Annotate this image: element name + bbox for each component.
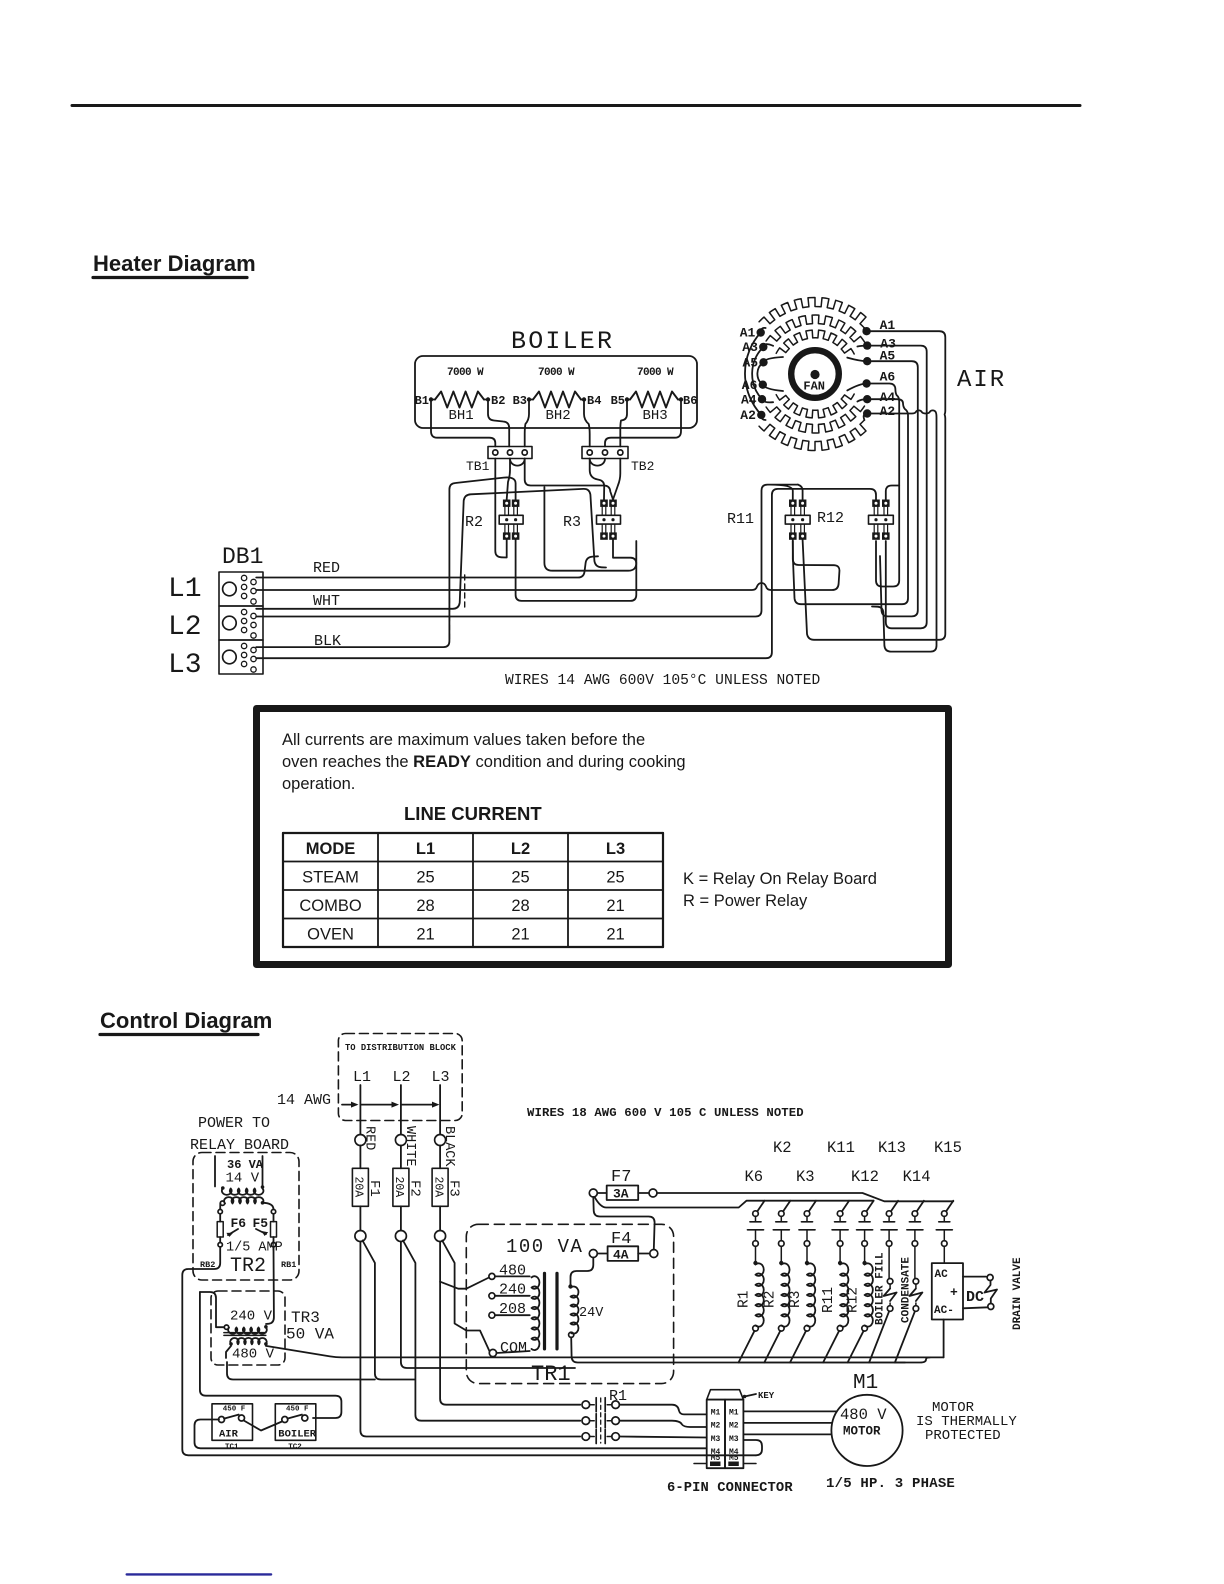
svg-text:A6: A6 bbox=[742, 378, 758, 393]
svg-text:R12: R12 bbox=[817, 510, 844, 527]
wire A4 bbox=[793, 399, 908, 604]
thermostat AIR TC1 bbox=[212, 1404, 253, 1441]
svg-text:MOTOR: MOTOR bbox=[843, 1425, 881, 1439]
air heater element ring 2 (middle, A3/A4) bbox=[766, 315, 864, 342]
svg-text:DC: DC bbox=[966, 1289, 984, 1306]
svg-text:AC-: AC- bbox=[934, 1305, 954, 1317]
fan hub bbox=[791, 350, 839, 398]
footer rule bbox=[127, 1573, 271, 1575]
terminal A4 (left) bbox=[758, 395, 766, 403]
svg-text:FAN: FAN bbox=[803, 380, 825, 394]
svg-text:K15: K15 bbox=[934, 1139, 962, 1157]
svg-text:Control Diagram: Control Diagram bbox=[100, 1008, 272, 1033]
heater element BH1 bbox=[435, 392, 484, 408]
wire 24V bottom to rail bbox=[571, 1337, 905, 1362]
power relay R11 bbox=[789, 500, 797, 507]
svg-text:OVEN: OVEN bbox=[307, 926, 354, 944]
svg-text:R1: R1 bbox=[737, 1291, 753, 1308]
terminal A6 (left) bbox=[759, 381, 767, 389]
svg-text:R11: R11 bbox=[727, 511, 754, 528]
page header rule bbox=[72, 104, 1080, 107]
svg-text:25: 25 bbox=[511, 869, 529, 887]
contact K11 bbox=[837, 1211, 843, 1217]
thermostat BOILER TC2 bbox=[275, 1404, 316, 1441]
terminal A6 (right) bbox=[862, 379, 870, 387]
wire F7 right feed A bbox=[657, 1193, 953, 1201]
contact K6 bbox=[753, 1211, 759, 1217]
wire F7 left feed B bbox=[595, 1197, 874, 1208]
wire AIR to BOILER link bbox=[244, 1421, 282, 1431]
svg-text:AIR: AIR bbox=[219, 1428, 239, 1440]
svg-text:A2: A2 bbox=[740, 408, 756, 423]
svg-text:M3: M3 bbox=[711, 1435, 721, 1444]
svg-text:BH3: BH3 bbox=[643, 408, 668, 424]
svg-text:TB2: TB2 bbox=[631, 459, 654, 474]
tap 240 bbox=[489, 1293, 495, 1299]
svg-text:450 F: 450 F bbox=[286, 1406, 309, 1414]
svg-text:F3: F3 bbox=[446, 1180, 462, 1197]
wire hidden riser (dashed) near WHT bbox=[464, 575, 466, 607]
svg-text:WHT: WHT bbox=[313, 593, 340, 610]
wire AIR left loop bbox=[195, 1420, 707, 1449]
wire connector to motor 2 bbox=[743, 1422, 832, 1424]
svg-text:K12: K12 bbox=[851, 1168, 879, 1186]
svg-text:A2: A2 bbox=[880, 404, 896, 419]
relay coil R12 bbox=[864, 1246, 866, 1261]
svg-text:28: 28 bbox=[511, 897, 529, 915]
svg-text:B1: B1 bbox=[415, 394, 429, 408]
terminal A3 (left) bbox=[759, 343, 767, 351]
wire BH2-B4 bbox=[581, 399, 584, 401]
wire RED phase column bbox=[359, 1085, 361, 1135]
contact K15 bbox=[942, 1211, 948, 1217]
wire B3-BH2 bbox=[529, 399, 533, 401]
svg-text:B6: B6 bbox=[683, 394, 697, 408]
svg-text:WIRES 18 AWG 600 V 105 C UNLES: WIRES 18 AWG 600 V 105 C UNLESS NOTED bbox=[527, 1106, 804, 1120]
wire hidden riser (dashed) near R2 bbox=[448, 598, 450, 641]
wire RB1 rail down bbox=[266, 1247, 274, 1324]
svg-text:L1: L1 bbox=[416, 840, 435, 858]
svg-text:K2: K2 bbox=[773, 1139, 792, 1157]
wire rail segment solenoids bbox=[849, 1362, 895, 1364]
terminal A2 (left) bbox=[757, 411, 765, 419]
wire WHITE phase column bbox=[400, 1085, 402, 1135]
dashed box TR2 bbox=[193, 1153, 299, 1281]
wire thermostat feed bbox=[200, 1292, 342, 1418]
svg-text:R2: R2 bbox=[762, 1291, 778, 1308]
terminal A5 (left) bbox=[759, 358, 767, 366]
svg-text:25: 25 bbox=[606, 869, 624, 887]
wire TB2 c1 to R3 upper bbox=[590, 459, 605, 500]
svg-text:Heater Diagram: Heater Diagram bbox=[93, 251, 256, 276]
contact K13 bbox=[886, 1211, 892, 1217]
svg-text:M1: M1 bbox=[729, 1409, 739, 1418]
wire solenoid BOILER FILL to rail bbox=[869, 1311, 889, 1362]
svg-text:14 AWG: 14 AWG bbox=[277, 1092, 331, 1109]
svg-text:POWER TO: POWER TO bbox=[198, 1115, 270, 1132]
wire A3 bbox=[867, 346, 927, 629]
svg-text:All currents are maximum value: All currents are maximum values taken be… bbox=[282, 731, 645, 749]
svg-text:R12: R12 bbox=[846, 1287, 862, 1313]
contact R1 pole 2 bbox=[582, 1417, 590, 1425]
terminal A1 (right) bbox=[862, 327, 870, 335]
svg-text:R3: R3 bbox=[563, 514, 581, 531]
solenoid CONDENSATE bbox=[914, 1246, 916, 1278]
wire coil R3 to rail bbox=[790, 1331, 806, 1363]
wire BH3-B6 bbox=[678, 399, 681, 401]
wire A5 bbox=[867, 361, 918, 616]
wire B1-BH1 bbox=[431, 399, 435, 401]
rectifier AC-DC bbox=[932, 1263, 963, 1319]
wire loop under R3 bbox=[544, 487, 636, 571]
solenoid DRAIN VALVE bbox=[963, 1276, 986, 1278]
wire long rail y1379 bbox=[227, 1362, 375, 1380]
svg-text:K13: K13 bbox=[878, 1139, 906, 1157]
svg-text:21: 21 bbox=[511, 926, 529, 944]
wire rail segment bbox=[765, 1362, 790, 1364]
transformer TR3 core bbox=[224, 1332, 266, 1334]
svg-text:B5: B5 bbox=[611, 394, 625, 408]
wire solenoid CONDENSATE to rail bbox=[895, 1311, 915, 1362]
relay coil R1 bbox=[755, 1246, 757, 1261]
wire B5 to TB2 bbox=[620, 402, 627, 447]
svg-text:3A: 3A bbox=[613, 1187, 629, 1202]
svg-text:L2: L2 bbox=[168, 612, 202, 643]
svg-text:F2: F2 bbox=[406, 1180, 422, 1197]
wire TB1 to R2 lower contact bbox=[495, 459, 506, 558]
wire L1 lower feed to R11 bbox=[256, 540, 839, 590]
svg-text:1/5 HP. 3 PHASE: 1/5 HP. 3 PHASE bbox=[826, 1476, 955, 1492]
svg-text:24V: 24V bbox=[579, 1306, 604, 1321]
wire TR3 480V out diagonal bbox=[266, 1346, 944, 1358]
svg-text:7000 W: 7000 W bbox=[538, 367, 575, 379]
terminal B3 bbox=[527, 397, 531, 401]
terminal A4 (right) bbox=[863, 395, 871, 403]
heater diagram group bbox=[72, 106, 1080, 690]
6-pin connector bbox=[707, 1390, 744, 1400]
svg-text:L2: L2 bbox=[511, 840, 530, 858]
dashed actuator link R1 bbox=[600, 1398, 602, 1443]
wire rail segment bbox=[740, 1362, 765, 1364]
dashed box TR3 bbox=[211, 1291, 285, 1365]
svg-text:TR3: TR3 bbox=[291, 1309, 320, 1327]
svg-text:BOILER: BOILER bbox=[278, 1428, 317, 1440]
svg-text:MODE: MODE bbox=[306, 840, 356, 858]
wire TB2 c3 to R3 upper-right bbox=[613, 459, 620, 500]
wire F3 split bbox=[440, 1242, 466, 1289]
wire rail to connector bbox=[743, 1440, 762, 1455]
wire coil R12 to rail bbox=[848, 1331, 864, 1363]
svg-text:240 V: 240 V bbox=[230, 1309, 273, 1325]
wire R1 pole3 to connector bbox=[619, 1437, 706, 1438]
wire U-link under TB2 bbox=[590, 459, 605, 466]
wire TR2 primary right to F5 bbox=[263, 1203, 274, 1210]
svg-text:4A: 4A bbox=[613, 1247, 629, 1262]
svg-text:DB1: DB1 bbox=[222, 544, 263, 570]
wire connector to motor 1 bbox=[743, 1410, 836, 1412]
relay coil R3 bbox=[806, 1246, 808, 1261]
wire R11 right-top stub bbox=[798, 485, 803, 500]
svg-text:R2: R2 bbox=[465, 514, 483, 531]
solenoid BOILER FILL bbox=[888, 1246, 890, 1278]
svg-text:50 VA: 50 VA bbox=[286, 1326, 334, 1344]
power relay R12 bbox=[872, 500, 880, 507]
fuse F6 bbox=[217, 1222, 223, 1237]
terminal A5 (right) bbox=[863, 357, 871, 365]
svg-text:14 V: 14 V bbox=[226, 1171, 260, 1187]
terminal B4 bbox=[582, 397, 586, 401]
fuse F3 20A bbox=[432, 1168, 448, 1206]
wire F2 split bbox=[401, 1242, 575, 1369]
wire TR3 480V left bbox=[226, 1346, 231, 1358]
svg-text:A6: A6 bbox=[880, 370, 896, 385]
terminal A2 (right) bbox=[863, 409, 871, 417]
svg-text:21: 21 bbox=[606, 926, 624, 944]
svg-text:F1: F1 bbox=[366, 1180, 382, 1197]
wire RB2 rail down-left bbox=[182, 1247, 756, 1455]
svg-text:STEAM: STEAM bbox=[302, 869, 359, 887]
wire F7 to F4 right bbox=[593, 1197, 654, 1250]
air heater element ring 3 (inner, A5/A6) bbox=[776, 330, 854, 354]
wire COM feed bbox=[466, 1331, 489, 1352]
contact K3 bbox=[804, 1211, 810, 1217]
svg-text:7000 W: 7000 W bbox=[637, 367, 674, 379]
svg-text:F5: F5 bbox=[253, 1216, 269, 1231]
air heater element ring 1 (outer, A1/A2) bbox=[759, 297, 866, 328]
wire coil R1 to rail bbox=[739, 1331, 755, 1363]
svg-text:20A: 20A bbox=[431, 1177, 444, 1198]
wire B2 to TB1 bbox=[488, 402, 509, 447]
svg-text:20A: 20A bbox=[352, 1177, 365, 1198]
terminal B2 bbox=[486, 397, 490, 401]
terminal B6 bbox=[679, 397, 683, 401]
tap 480 bbox=[489, 1273, 495, 1279]
wire B4 to TB2 bbox=[584, 402, 590, 447]
fuse F2 20A bbox=[393, 1168, 409, 1206]
svg-text:RED: RED bbox=[313, 560, 340, 577]
wire BLACK phase column bbox=[439, 1085, 441, 1135]
svg-text:K14: K14 bbox=[903, 1168, 931, 1186]
terminal block TB1 bbox=[488, 447, 532, 459]
wire L2 lower feed to R11 bbox=[256, 485, 798, 617]
power relay R3 bbox=[600, 500, 608, 507]
note box bbox=[257, 709, 949, 965]
svg-text:K11: K11 bbox=[827, 1139, 855, 1157]
wire B1 to TB1 bbox=[431, 402, 495, 447]
wire connector to motor 3 bbox=[743, 1433, 831, 1435]
wire 24V top to F4 bbox=[571, 1258, 594, 1287]
svg-text:480 V: 480 V bbox=[232, 1347, 275, 1363]
wire B5-BH3 bbox=[627, 399, 630, 401]
svg-text:CONDENSATE: CONDENSATE bbox=[900, 1257, 912, 1323]
wire L3 lower feed to R12 bbox=[256, 489, 876, 658]
fuse F1 20A bbox=[352, 1168, 368, 1206]
transformer TR3 secondary 480V bbox=[230, 1338, 267, 1344]
svg-text:BLACK: BLACK bbox=[441, 1126, 456, 1167]
svg-text:100 VA: 100 VA bbox=[506, 1236, 583, 1258]
wire rail segment bbox=[824, 1362, 848, 1364]
transformer TR1 secondary winding 24V bbox=[571, 1287, 579, 1334]
tap 208 bbox=[489, 1312, 495, 1318]
transformer TR1 core bbox=[543, 1273, 546, 1349]
svg-text:L3: L3 bbox=[606, 840, 625, 858]
wire F1 split bbox=[360, 1242, 580, 1437]
svg-text:450 F: 450 F bbox=[223, 1406, 246, 1414]
tap COM bbox=[489, 1349, 496, 1356]
svg-text:20A: 20A bbox=[392, 1177, 405, 1198]
wire B6 to TB2 bbox=[605, 402, 681, 447]
svg-text:R = Power Relay: R = Power Relay bbox=[683, 892, 808, 910]
svg-text:B4: B4 bbox=[587, 394, 601, 408]
svg-text:K = Relay On Relay Board: K = Relay On Relay Board bbox=[683, 870, 877, 888]
svg-text:K3: K3 bbox=[796, 1168, 815, 1186]
svg-text:K6: K6 bbox=[745, 1168, 764, 1186]
svg-text:L3: L3 bbox=[432, 1069, 450, 1086]
svg-text:A4: A4 bbox=[741, 392, 757, 407]
svg-text:L1: L1 bbox=[168, 574, 202, 605]
svg-text:RED: RED bbox=[361, 1126, 376, 1150]
wire A2 bbox=[867, 410, 936, 651]
wire TR3 240V left down bbox=[200, 1292, 224, 1327]
contact K2 bbox=[779, 1211, 785, 1217]
wire left arc ring1 A1-A2 bbox=[745, 328, 766, 420]
svg-text:KEY: KEY bbox=[758, 1391, 775, 1401]
svg-text:R11: R11 bbox=[821, 1287, 837, 1313]
wire R1 pole1 to connector bbox=[619, 1405, 706, 1415]
terminal B5 bbox=[625, 397, 629, 401]
svg-text:21: 21 bbox=[606, 897, 624, 915]
svg-text:M2: M2 bbox=[711, 1422, 721, 1431]
svg-text:F7: F7 bbox=[611, 1168, 631, 1187]
contact K14 bbox=[912, 1211, 918, 1217]
svg-text:PROTECTED: PROTECTED bbox=[925, 1428, 1001, 1444]
wire left arc ring3 A5-A6 bbox=[757, 357, 783, 391]
svg-text:LINE CURRENT: LINE CURRENT bbox=[404, 803, 542, 824]
svg-text:M2: M2 bbox=[729, 1422, 739, 1431]
wire R2 lower-right loop to R3 bbox=[516, 540, 637, 601]
heater element BH2 bbox=[533, 392, 581, 408]
svg-text:L2: L2 bbox=[393, 1069, 411, 1086]
connector side ticks bbox=[694, 1463, 707, 1465]
heater element BH3 bbox=[630, 392, 678, 408]
svg-text:TR2: TR2 bbox=[230, 1255, 266, 1278]
svg-text:7000 W: 7000 W bbox=[447, 367, 484, 379]
wire coil R11 to rail bbox=[823, 1331, 839, 1363]
svg-text:BH1: BH1 bbox=[449, 408, 474, 424]
wire left arc ring2 A3-A4 bbox=[752, 344, 773, 402]
transformer TR1 primary winding bbox=[532, 1276, 540, 1350]
transformer TR2 primary bbox=[224, 1197, 263, 1203]
svg-text:COMBO: COMBO bbox=[299, 897, 362, 915]
svg-text:28: 28 bbox=[416, 897, 434, 915]
svg-text:WIRES 14 AWG 600V 105°C UNLESS: WIRES 14 AWG 600V 105°C UNLESS NOTED bbox=[505, 673, 821, 689]
svg-text:25: 25 bbox=[416, 869, 434, 887]
svg-text:BH2: BH2 bbox=[546, 408, 571, 424]
svg-text:COM: COM bbox=[500, 1340, 527, 1357]
power relay R2 bbox=[503, 500, 511, 507]
wire A1 to R12 bbox=[803, 331, 946, 640]
svg-text:M3: M3 bbox=[729, 1435, 739, 1444]
svg-text:TB1: TB1 bbox=[466, 459, 490, 474]
terminal A1 (left) bbox=[757, 328, 765, 336]
svg-text:B2: B2 bbox=[491, 394, 505, 408]
wire ring1 to A1 right bbox=[864, 328, 867, 331]
svg-text:A4: A4 bbox=[880, 390, 896, 405]
svg-text:B3: B3 bbox=[513, 394, 527, 408]
svg-text:TR1: TR1 bbox=[531, 1362, 571, 1387]
svg-text:BOILER FILL: BOILER FILL bbox=[875, 1252, 887, 1325]
wire R1 pole2 to connector bbox=[619, 1421, 706, 1427]
svg-text:M1: M1 bbox=[711, 1409, 721, 1418]
contact K12 bbox=[862, 1211, 868, 1217]
svg-text:R3: R3 bbox=[788, 1291, 804, 1308]
wire K15 to rectifier bbox=[943, 1246, 945, 1263]
svg-text:M1: M1 bbox=[853, 1372, 878, 1395]
terminal block TB2 bbox=[582, 447, 628, 459]
svg-text:A5: A5 bbox=[743, 356, 759, 371]
svg-text:AC: AC bbox=[935, 1269, 949, 1281]
terminal A3 (right) bbox=[863, 341, 871, 349]
svg-text:480 V: 480 V bbox=[840, 1406, 887, 1424]
svg-text:BOILER: BOILER bbox=[511, 327, 614, 356]
wire 14 AWG arrows bbox=[342, 1104, 436, 1106]
terminal B1 bbox=[429, 397, 433, 401]
relay coil R2 bbox=[780, 1246, 782, 1261]
dashed box TR1 bbox=[466, 1224, 673, 1383]
wire rectifier bottom to rail bbox=[895, 1320, 944, 1363]
wire 480 tap feed bbox=[466, 1278, 489, 1289]
relay coil R11 bbox=[839, 1246, 841, 1261]
wire TB1 c3 to R3 right top bbox=[525, 459, 613, 500]
dashed box TO DISTRIBUTION BLOCK bbox=[338, 1034, 462, 1121]
svg-text:operation.: operation. bbox=[282, 775, 355, 793]
svg-text:oven reaches the READY conditi: oven reaches the READY condition and dur… bbox=[282, 753, 686, 771]
svg-text:A1: A1 bbox=[740, 326, 756, 341]
fuse F5 bbox=[271, 1222, 277, 1237]
wire TR2 primary left to F6 bbox=[219, 1203, 221, 1209]
wire A6 bbox=[867, 384, 900, 587]
svg-text:WHITE: WHITE bbox=[402, 1126, 417, 1167]
wire BH1-B2 bbox=[484, 399, 488, 401]
svg-text:AIR: AIR bbox=[957, 367, 1006, 394]
wire R12 right-top stub bbox=[886, 486, 899, 500]
wire U-link under TB1 bbox=[510, 459, 525, 466]
wire R2 upper-left from TB1 c2 bbox=[507, 459, 510, 500]
svg-text:6-PIN CONNECTOR: 6-PIN CONNECTOR bbox=[667, 1481, 793, 1496]
contact R1 pole 1 bbox=[582, 1401, 590, 1409]
svg-text:+: + bbox=[950, 1285, 958, 1300]
svg-text:L1: L1 bbox=[353, 1069, 371, 1086]
svg-text:L3: L3 bbox=[168, 650, 202, 681]
svg-text:21: 21 bbox=[416, 926, 434, 944]
wire B3 to TB1 bbox=[525, 402, 529, 447]
svg-text:RB1: RB1 bbox=[281, 1260, 296, 1270]
svg-text:A3: A3 bbox=[742, 340, 758, 355]
wire rail segment bbox=[791, 1362, 823, 1364]
svg-text:RELAY BOARD: RELAY BOARD bbox=[190, 1137, 289, 1154]
svg-text:DRAIN VALVE: DRAIN VALVE bbox=[1012, 1257, 1024, 1330]
contact R1 pole 3 bbox=[582, 1433, 590, 1441]
svg-text:TO DISTRIBUTION BLOCK: TO DISTRIBUTION BLOCK bbox=[345, 1043, 457, 1053]
wire coil R2 to rail bbox=[764, 1331, 780, 1363]
